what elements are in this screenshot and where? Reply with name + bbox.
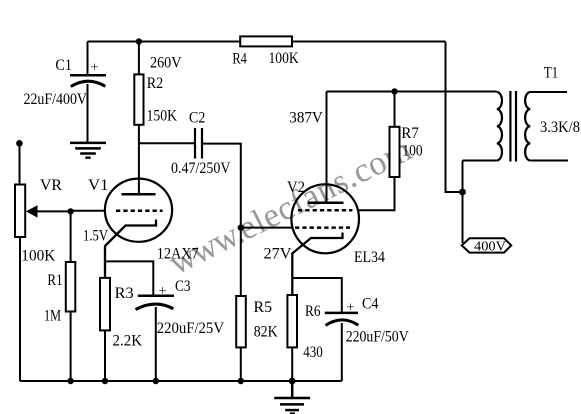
svg-text:0.47/250V: 0.47/250V	[171, 160, 231, 177]
junction C3 / ground rail	[153, 378, 159, 384]
svg-text:R4: R4	[232, 51, 247, 68]
resistor R6	[287, 295, 297, 381]
wire V2 plate lead	[326, 92, 328, 203]
svg-text:400V: 400V	[474, 240, 506, 255]
transformer T1	[463, 91, 569, 162]
svg-text:1.5V: 1.5V	[83, 228, 108, 245]
capacitor C1	[70, 42, 106, 143]
wire right drop	[446, 42, 463, 193]
svg-text:1M: 1M	[44, 308, 61, 325]
resistor R7	[359, 92, 400, 211]
svg-text:C1: C1	[55, 57, 72, 74]
node input terminal	[16, 140, 23, 147]
capacitor C4	[325, 313, 359, 381]
junction R3 / ground rail	[102, 378, 108, 384]
svg-text:R3: R3	[115, 285, 134, 302]
svg-text:150K: 150K	[147, 108, 178, 125]
wire R2 to C2	[139, 142, 195, 144]
tube V2 (EL34)	[291, 184, 359, 295]
svg-text:27V: 27V	[264, 246, 292, 263]
junction B+ rail / R2	[136, 38, 142, 44]
svg-text:260V: 260V	[150, 55, 182, 72]
svg-text:+: +	[159, 284, 167, 299]
svg-text:22uF/400V: 22uF/400V	[24, 91, 88, 108]
svg-text:R2: R2	[147, 75, 164, 92]
svg-text:R7: R7	[401, 125, 418, 142]
wire plate to transformer	[327, 91, 497, 93]
wire top rail left segment	[88, 41, 241, 43]
capacitor C3	[136, 296, 175, 381]
svg-text:C4: C4	[362, 296, 378, 313]
svg-text:V2: V2	[287, 179, 305, 196]
svg-text:EL34: EL34	[354, 249, 385, 266]
ground (main)	[274, 381, 310, 414]
wire V2 cathode branch to C4	[292, 278, 342, 312]
svg-text:C2: C2	[189, 110, 205, 127]
junction VR wiper / R1 / V1 grid	[67, 208, 73, 214]
junction 400V supply node	[459, 189, 466, 196]
resistor R2	[134, 42, 143, 195]
svg-text:220uF/25V: 220uF/25V	[157, 320, 225, 337]
capacitor C2	[195, 128, 202, 159]
svg-text:12AX7: 12AX7	[157, 246, 199, 263]
svg-text:T1: T1	[544, 65, 559, 82]
potentiometer VR	[15, 143, 71, 381]
svg-text:R1: R1	[47, 272, 62, 289]
svg-text:387V: 387V	[289, 109, 323, 126]
resistor R4	[240, 36, 292, 46]
svg-text:100K: 100K	[269, 50, 300, 67]
svg-text:V1: V1	[88, 177, 109, 194]
svg-text:R6: R6	[305, 303, 321, 320]
svg-text:+: +	[91, 61, 99, 76]
junction R5 / ground rail	[238, 378, 244, 384]
wire top rail right segment	[292, 41, 446, 43]
svg-text:3.3K/8: 3.3K/8	[540, 119, 580, 136]
resistor R5	[236, 296, 246, 347]
junction R6 / ground symbol	[289, 378, 296, 385]
wire R5 bottom	[240, 347, 242, 381]
resistor R1	[66, 211, 76, 381]
resistor R3	[100, 278, 110, 381]
svg-text:220uF/50V: 220uF/50V	[346, 329, 409, 346]
svg-text:R5: R5	[254, 299, 273, 316]
wire V1 cathode branch to C3	[105, 261, 153, 295]
svg-text:C3: C3	[175, 278, 191, 295]
svg-text:VR: VR	[40, 177, 62, 194]
wire bottom rail	[20, 380, 342, 382]
junction R1 / ground rail	[67, 378, 73, 384]
wire 400V riser	[462, 161, 464, 244]
tube V1 (12AX7)	[105, 179, 172, 278]
wire V1 grid lead	[71, 210, 106, 212]
svg-text:100: 100	[402, 143, 422, 160]
node grid V2 wire	[241, 227, 292, 229]
junction C2 / R5 / V2 grid	[238, 224, 244, 230]
svg-text:100K: 100K	[21, 248, 55, 265]
svg-text:430: 430	[303, 344, 323, 361]
junction R7 top / plate wire	[391, 88, 397, 94]
wire C2 to grid node	[202, 144, 241, 296]
node 400V tag	[462, 238, 512, 252]
svg-text:+: +	[347, 301, 355, 316]
svg-text:2.2K: 2.2K	[113, 333, 143, 350]
ground (C1)	[70, 143, 106, 158]
svg-text:82K: 82K	[254, 324, 278, 341]
